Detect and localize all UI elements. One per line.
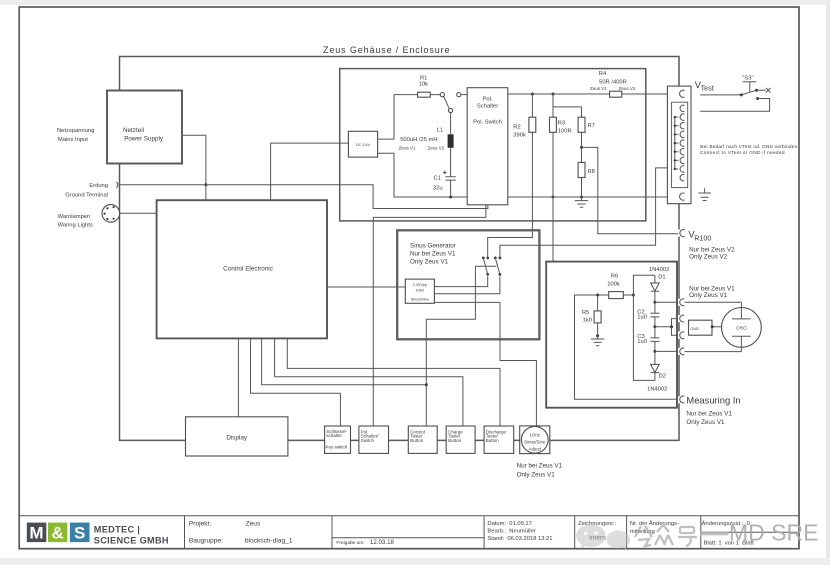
resistor R4 — [610, 91, 622, 97]
switch S3 actuator stem — [749, 82, 751, 93]
switch SG2 pole dot — [499, 273, 502, 276]
wire switch to pol box — [461, 94, 467, 96]
wire R8 bottom to rail — [581, 178, 583, 198]
pol switch button box — [359, 426, 389, 453]
svg-text:Display: Display — [226, 435, 247, 442]
wire contact4 to CRO bottom — [685, 351, 742, 353]
svg-text:R8: R8 — [588, 169, 595, 175]
svg-text:M: M — [29, 524, 43, 543]
wire R4 to connector — [622, 93, 678, 95]
wire R7 to node — [581, 132, 583, 147]
wire S3 contact to open end — [757, 89, 766, 91]
contact bracket C2 C3 — [672, 319, 679, 336]
svg-text:Bei Bedarf nach VTest od. GND: Bei Bedarf nach VTest od. GND verbinden — [700, 144, 797, 150]
svg-text:Sinus/Sine: Sinus/Sine — [524, 440, 546, 445]
wire DC5kV minus to bottom rail — [378, 153, 468, 197]
diode bypass wire — [633, 275, 655, 380]
converter box DC 5 kV — [348, 131, 377, 157]
logo M square — [27, 523, 47, 543]
svg-text:10Hz: 10Hz — [530, 432, 541, 437]
svg-text:32u: 32u — [433, 186, 443, 192]
node C1 rail junction — [449, 196, 452, 199]
svg-text:Test: Test — [701, 84, 714, 93]
wire DC5kV plus to R1 line — [378, 95, 441, 140]
svg-text:Projekt:: Projekt: — [189, 521, 212, 528]
resistor R8 — [581, 147, 583, 162]
svg-text:CRO: CRO — [736, 326, 747, 332]
svg-text:R5: R5 — [582, 310, 589, 316]
svg-text:R100: R100 — [694, 233, 711, 242]
wire R6 node to measuring-in contact — [575, 295, 679, 399]
watermark hanzi gong — [635, 526, 652, 546]
svg-text:R7: R7 — [588, 123, 595, 129]
svg-text:Stand: 06.03.2018 13:21: Stand: 06.03.2018 13:21 — [487, 536, 552, 542]
wire enclosure top to connector — [678, 57, 680, 87]
svg-text:Netzteil: Netzteil — [123, 127, 144, 134]
svg-text:Zeus V2: Zeus V2 — [428, 145, 445, 150]
wire pol switch box to pol button — [373, 205, 486, 426]
svg-text:1N4002: 1N4002 — [647, 386, 667, 392]
node2 junction — [653, 350, 656, 353]
svg-text:50R /400R: 50R /400R — [599, 79, 627, 85]
svg-text:Only Zeus V1: Only Zeus V1 — [689, 292, 728, 299]
svg-text:100R: 100R — [558, 128, 572, 134]
svg-text:1N4002: 1N4002 — [649, 267, 669, 273]
svg-text:500uH /25 mH: 500uH /25 mH — [400, 137, 437, 143]
svg-text:Power Supply: Power Supply — [124, 136, 164, 143]
svg-text:S: S — [74, 524, 85, 543]
svg-text:Zeus V1: Zeus V1 — [399, 145, 416, 150]
wire R3 bottom to rail — [552, 132, 554, 197]
svg-text:Bearb.: Neumüller: Bearb.: Neumüller — [487, 528, 535, 534]
switch SG1 pole dot — [486, 273, 489, 276]
wire switch pole to L1 — [450, 113, 452, 135]
wire node2 to contact — [655, 350, 678, 352]
node bracket junction — [670, 325, 673, 328]
node CRO left junction — [711, 325, 714, 328]
switch S3 blade — [741, 90, 756, 95]
enclosure Zeus Gehaeuse boundary top/left/bottom — [120, 57, 680, 441]
svg-text:"S3": "S3" — [742, 76, 753, 82]
wire netzteil output to ground line and control electronic — [182, 135, 206, 200]
connector outer box — [667, 86, 691, 204]
pol switch relay box — [467, 88, 508, 205]
svg-text:Connect to VTest or GND if nee: Connect to VTest or GND if needed — [700, 150, 785, 156]
connector contact bottom C — [680, 193, 685, 200]
svg-text:Zeus: Zeus — [246, 521, 261, 528]
svg-text:390k: 390k — [513, 133, 526, 139]
switch S3 second contact dot — [756, 97, 759, 100]
svg-text:D1: D1 — [658, 274, 665, 280]
svg-text:Warnlampen: Warnlampen — [58, 214, 91, 220]
svg-text:Nr. der Änderungs-: Nr. der Änderungs- — [630, 520, 679, 527]
capacitor C2 — [650, 302, 659, 327]
sinus generator box — [397, 230, 539, 339]
resistor R6 — [598, 294, 634, 296]
svg-text:Zeus V2: Zeus V2 — [619, 86, 636, 91]
capacitor C3 — [650, 327, 659, 352]
wire control to control button — [262, 338, 427, 384]
switch SG1 blade — [483, 258, 487, 274]
svg-text:Nur bei Zeus V2: Nur bei Zeus V2 — [689, 246, 735, 253]
wire control taste vertical from sine switch pole — [426, 266, 496, 426]
svg-text:2-20Vpp: 2-20Vpp — [413, 283, 427, 287]
svg-text:Mains Input: Mains Input — [58, 137, 88, 143]
switch S1 blade — [444, 96, 450, 109]
svg-text:C1: C1 — [434, 176, 441, 182]
resistor R1 — [418, 92, 431, 97]
svg-text:Pol. Switch: Pol. Switch — [473, 120, 502, 126]
svg-text:Adjust: Adjust — [529, 446, 542, 451]
svg-text:Zeus Gehäuse / Enclosure: Zeus Gehäuse / Enclosure — [323, 45, 450, 55]
svg-text:Pol.: Pol. — [483, 96, 493, 102]
wire top rail pol box to R4 — [508, 93, 610, 95]
wire S3 second throw return — [700, 99, 769, 112]
connector contact group C3 — [680, 332, 685, 339]
node junction control button wire — [425, 383, 428, 386]
hv generator sub-circuit box — [340, 69, 646, 221]
control button box — [408, 426, 437, 453]
resistor R2 — [531, 94, 533, 117]
svg-text:Only Zeus V1: Only Zeus V1 — [686, 419, 725, 426]
svg-text:Ground Terminal: Ground Terminal — [65, 193, 108, 199]
diode D2 — [654, 351, 656, 364]
wire control electronic to sine source — [327, 286, 405, 288]
wire node1 to contact — [655, 301, 678, 303]
svg-text:D2: D2 — [659, 374, 666, 380]
svg-text:R3: R3 — [558, 121, 565, 127]
switch S1 contact b — [457, 93, 461, 97]
svg-text:10k: 10k — [419, 82, 428, 88]
connector contact top C — [680, 90, 685, 97]
wire control to key switch button — [251, 338, 341, 426]
switch SG2 blade — [495, 258, 500, 275]
wire C1 to rail — [450, 180, 452, 197]
wire switch SG2 up to connector bus — [500, 168, 675, 258]
wire sine source to switch2 pole — [434, 276, 500, 293]
discharge button box — [484, 426, 514, 453]
svg-text:Erdung: Erdung — [89, 183, 108, 189]
measuring divider box — [546, 262, 677, 408]
connector contact VR100 C — [680, 230, 685, 237]
resistor R5 — [597, 295, 599, 311]
wire branch R3 to R7 — [553, 107, 582, 117]
svg-text:R1: R1 — [420, 75, 427, 81]
ground symbol below rail — [575, 197, 588, 207]
page edge bottom — [0, 558, 830, 565]
wire switch SG1 to R2 — [487, 256, 489, 258]
10Hz adjust box — [520, 426, 550, 454]
connector contact pins 1-9 — [680, 105, 684, 181]
svg-text:Waring Lights: Waring Lights — [58, 222, 93, 228]
svg-text:Freigabe am:: Freigabe am: — [336, 540, 364, 546]
svg-text:100k: 100k — [607, 281, 620, 287]
logo ampersand square — [48, 523, 67, 543]
svg-text:Only Zeus V1: Only Zeus V1 — [517, 471, 556, 478]
svg-text:Control Electronic: Control Electronic — [223, 265, 273, 272]
page edge right — [826, 0, 830, 565]
node R6 left junction — [596, 294, 599, 297]
svg-text:blocksch-diag_1: blocksch-diag_1 — [245, 537, 293, 544]
CRO oscilloscope symbol — [722, 308, 762, 348]
svg-text:&: & — [52, 524, 64, 543]
svg-text:Button: Button — [448, 438, 462, 443]
svg-text:L1: L1 — [437, 128, 443, 134]
svg-text:10Hz: 10Hz — [415, 289, 424, 293]
wire gnd node to bracket and CRO — [655, 326, 722, 328]
10Hz adjust knob circle — [521, 426, 548, 453]
wire Erdung ground line — [120, 185, 488, 209]
node R6 right junction — [632, 294, 635, 297]
watermark dash — [701, 532, 729, 536]
svg-text:Sinus/Sine: Sinus/Sine — [411, 298, 429, 302]
charge button box — [446, 426, 475, 453]
node GND junction — [653, 325, 656, 328]
title block frame — [19, 516, 799, 549]
svg-text:Nur bei Zeus V1: Nur bei Zeus V1 — [686, 410, 732, 417]
switch SG2 contact left — [494, 257, 497, 260]
switch S3 pole dot — [740, 93, 743, 96]
inductor L1 — [448, 134, 454, 148]
watermark hanzi hao — [678, 527, 697, 546]
svg-text:Only Zeus V2: Only Zeus V2 — [689, 253, 728, 260]
bottom rail to connector — [508, 196, 678, 198]
page edge top — [0, 0, 830, 5]
node R2 top — [531, 93, 534, 96]
wire control to display — [237, 338, 239, 416]
svg-text:12.03.18: 12.03.18 — [370, 539, 395, 546]
connector contact measuring C — [680, 396, 685, 403]
svg-text:MEDTEC |: MEDTEC | — [94, 524, 140, 534]
resistor R3 — [552, 94, 554, 117]
svg-text:1u0: 1u0 — [637, 314, 647, 320]
watermark wechat icon — [576, 525, 630, 550]
svg-text:DC 5 kV: DC 5 kV — [356, 143, 371, 147]
switch S1 contact a — [440, 93, 444, 97]
svg-text:schalter: schalter — [326, 433, 342, 438]
wire control to charge button — [275, 338, 463, 426]
wire sine output to 10Hz adjust — [500, 302, 536, 426]
connector contact group C2 — [680, 315, 685, 322]
node R3 top — [552, 93, 555, 96]
open end X mark — [766, 88, 771, 93]
wire L1 to C1 — [450, 148, 452, 177]
wire control electronic to DC 5 kV converter — [271, 143, 349, 200]
control electronic box — [157, 200, 327, 338]
wire node to VR100 line — [582, 147, 679, 233]
svg-text:GND: GND — [690, 327, 699, 331]
wire D1 to node1 — [654, 291, 656, 302]
svg-text:Switch: Switch — [361, 438, 375, 443]
svg-text:R6: R6 — [611, 273, 618, 279]
node R7 R8 junction — [580, 146, 583, 149]
switch S1 pole contact — [449, 108, 453, 112]
ground terminal symbol — [116, 182, 118, 188]
capacitor C1 — [445, 177, 455, 180]
logo S square — [70, 523, 90, 543]
sine source box 2-20Vpp — [405, 279, 434, 303]
svg-text:Nur bei Zeus V1: Nur bei Zeus V1 — [410, 250, 456, 257]
connector pin bus — [675, 117, 678, 169]
node pin bus dots — [674, 116, 676, 118]
resistor R7 — [578, 117, 585, 132]
switch S3 contact dot — [755, 89, 758, 92]
GND label box — [689, 320, 713, 335]
wire R2 down to sine switch — [488, 132, 533, 256]
svg-text:Button: Button — [410, 438, 424, 443]
svg-text:1u0: 1u0 — [637, 339, 647, 345]
wire R3 net into measuring box to ground node — [553, 197, 598, 336]
wire sine source to switch1 pole — [434, 276, 487, 286]
wire sine source output3 — [434, 301, 500, 303]
wire R5 to ground node — [597, 323, 599, 336]
svg-text:Sinus Generator: Sinus Generator — [410, 242, 456, 249]
svg-text:Measuring In: Measuring In — [686, 395, 740, 406]
netzteil power supply box — [107, 91, 182, 164]
wire VTest to switch S3 — [700, 94, 741, 96]
svg-text:Datum: 01.09.17: Datum: 01.09.17 — [487, 521, 531, 527]
node R3 rail junction — [552, 196, 555, 199]
node R8 rail junction — [580, 196, 583, 199]
display box — [186, 417, 288, 456]
svg-text:Netzspannung: Netzspannung — [57, 128, 94, 134]
svg-text:1k0: 1k0 — [583, 318, 592, 324]
connector contact group C1 — [680, 299, 685, 306]
key switch box — [325, 426, 351, 453]
watermark hanzi zhong — [655, 525, 673, 545]
warning lights connector circle — [102, 205, 120, 223]
node junction netzteil/ground line — [204, 183, 207, 186]
connector contact group C4 — [680, 348, 685, 355]
wire contact1 to CRO top — [685, 301, 742, 303]
ground symbol measuring — [591, 336, 604, 346]
svg-text:Only Zeus V1: Only Zeus V1 — [410, 258, 449, 265]
ground symbol near connector — [698, 188, 711, 200]
svg-text:Nur bei Zeus V1: Nur bei Zeus V1 — [517, 462, 563, 469]
svg-text:SCIENCE GMBH: SCIENCE GMBH — [94, 536, 169, 546]
switch SG1 contact left — [482, 257, 485, 260]
svg-text:Zeus V1: Zeus V1 — [590, 86, 607, 91]
switch SG2 contact right — [499, 257, 502, 260]
svg-text:MD SRE: MD SRE — [729, 520, 818, 546]
svg-text:Button: Button — [486, 438, 500, 443]
svg-text:R2: R2 — [513, 125, 520, 131]
svg-text:Key-switch: Key-switch — [326, 445, 348, 450]
svg-text:R4: R4 — [599, 71, 607, 77]
svg-text:Baugruppe:: Baugruppe: — [189, 537, 223, 544]
switch SG1 contact right — [486, 257, 489, 260]
node ground junction — [596, 334, 599, 337]
connector inner box — [672, 102, 688, 187]
diode D1 — [654, 275, 656, 283]
svg-text:Schalter: Schalter — [477, 103, 498, 109]
node1 junction — [653, 301, 656, 304]
wire control to discharge button — [287, 338, 500, 426]
wire warning lights to control electronic — [120, 212, 157, 214]
